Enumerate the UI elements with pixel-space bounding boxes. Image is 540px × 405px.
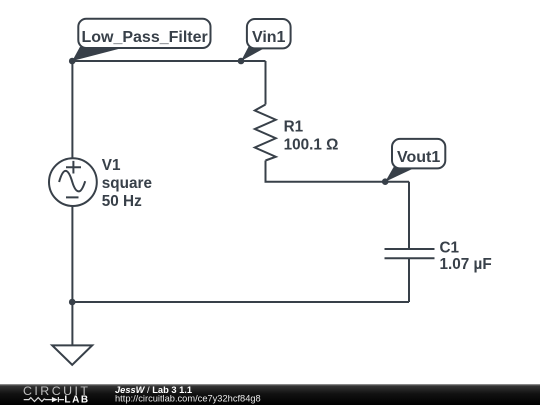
svg-text:square: square [102, 175, 152, 192]
svg-text:http://circuitlab.com/ce7y32hc: http://circuitlab.com/ce7y32hcf84g8 [115, 394, 261, 404]
svg-text:Low_Pass_Filter: Low_Pass_Filter [81, 29, 207, 46]
svg-text:50 Hz: 50 Hz [102, 193, 142, 210]
svg-text:1.07 µF: 1.07 µF [440, 256, 492, 273]
svg-text:Vin1: Vin1 [252, 29, 286, 46]
svg-text:C1: C1 [440, 239, 460, 256]
svg-text:LAB: LAB [64, 395, 89, 405]
svg-text:V1: V1 [102, 157, 121, 174]
svg-text:100.1 Ω: 100.1 Ω [284, 136, 339, 153]
svg-text:Vout1: Vout1 [397, 149, 440, 166]
svg-text:R1: R1 [284, 118, 304, 135]
